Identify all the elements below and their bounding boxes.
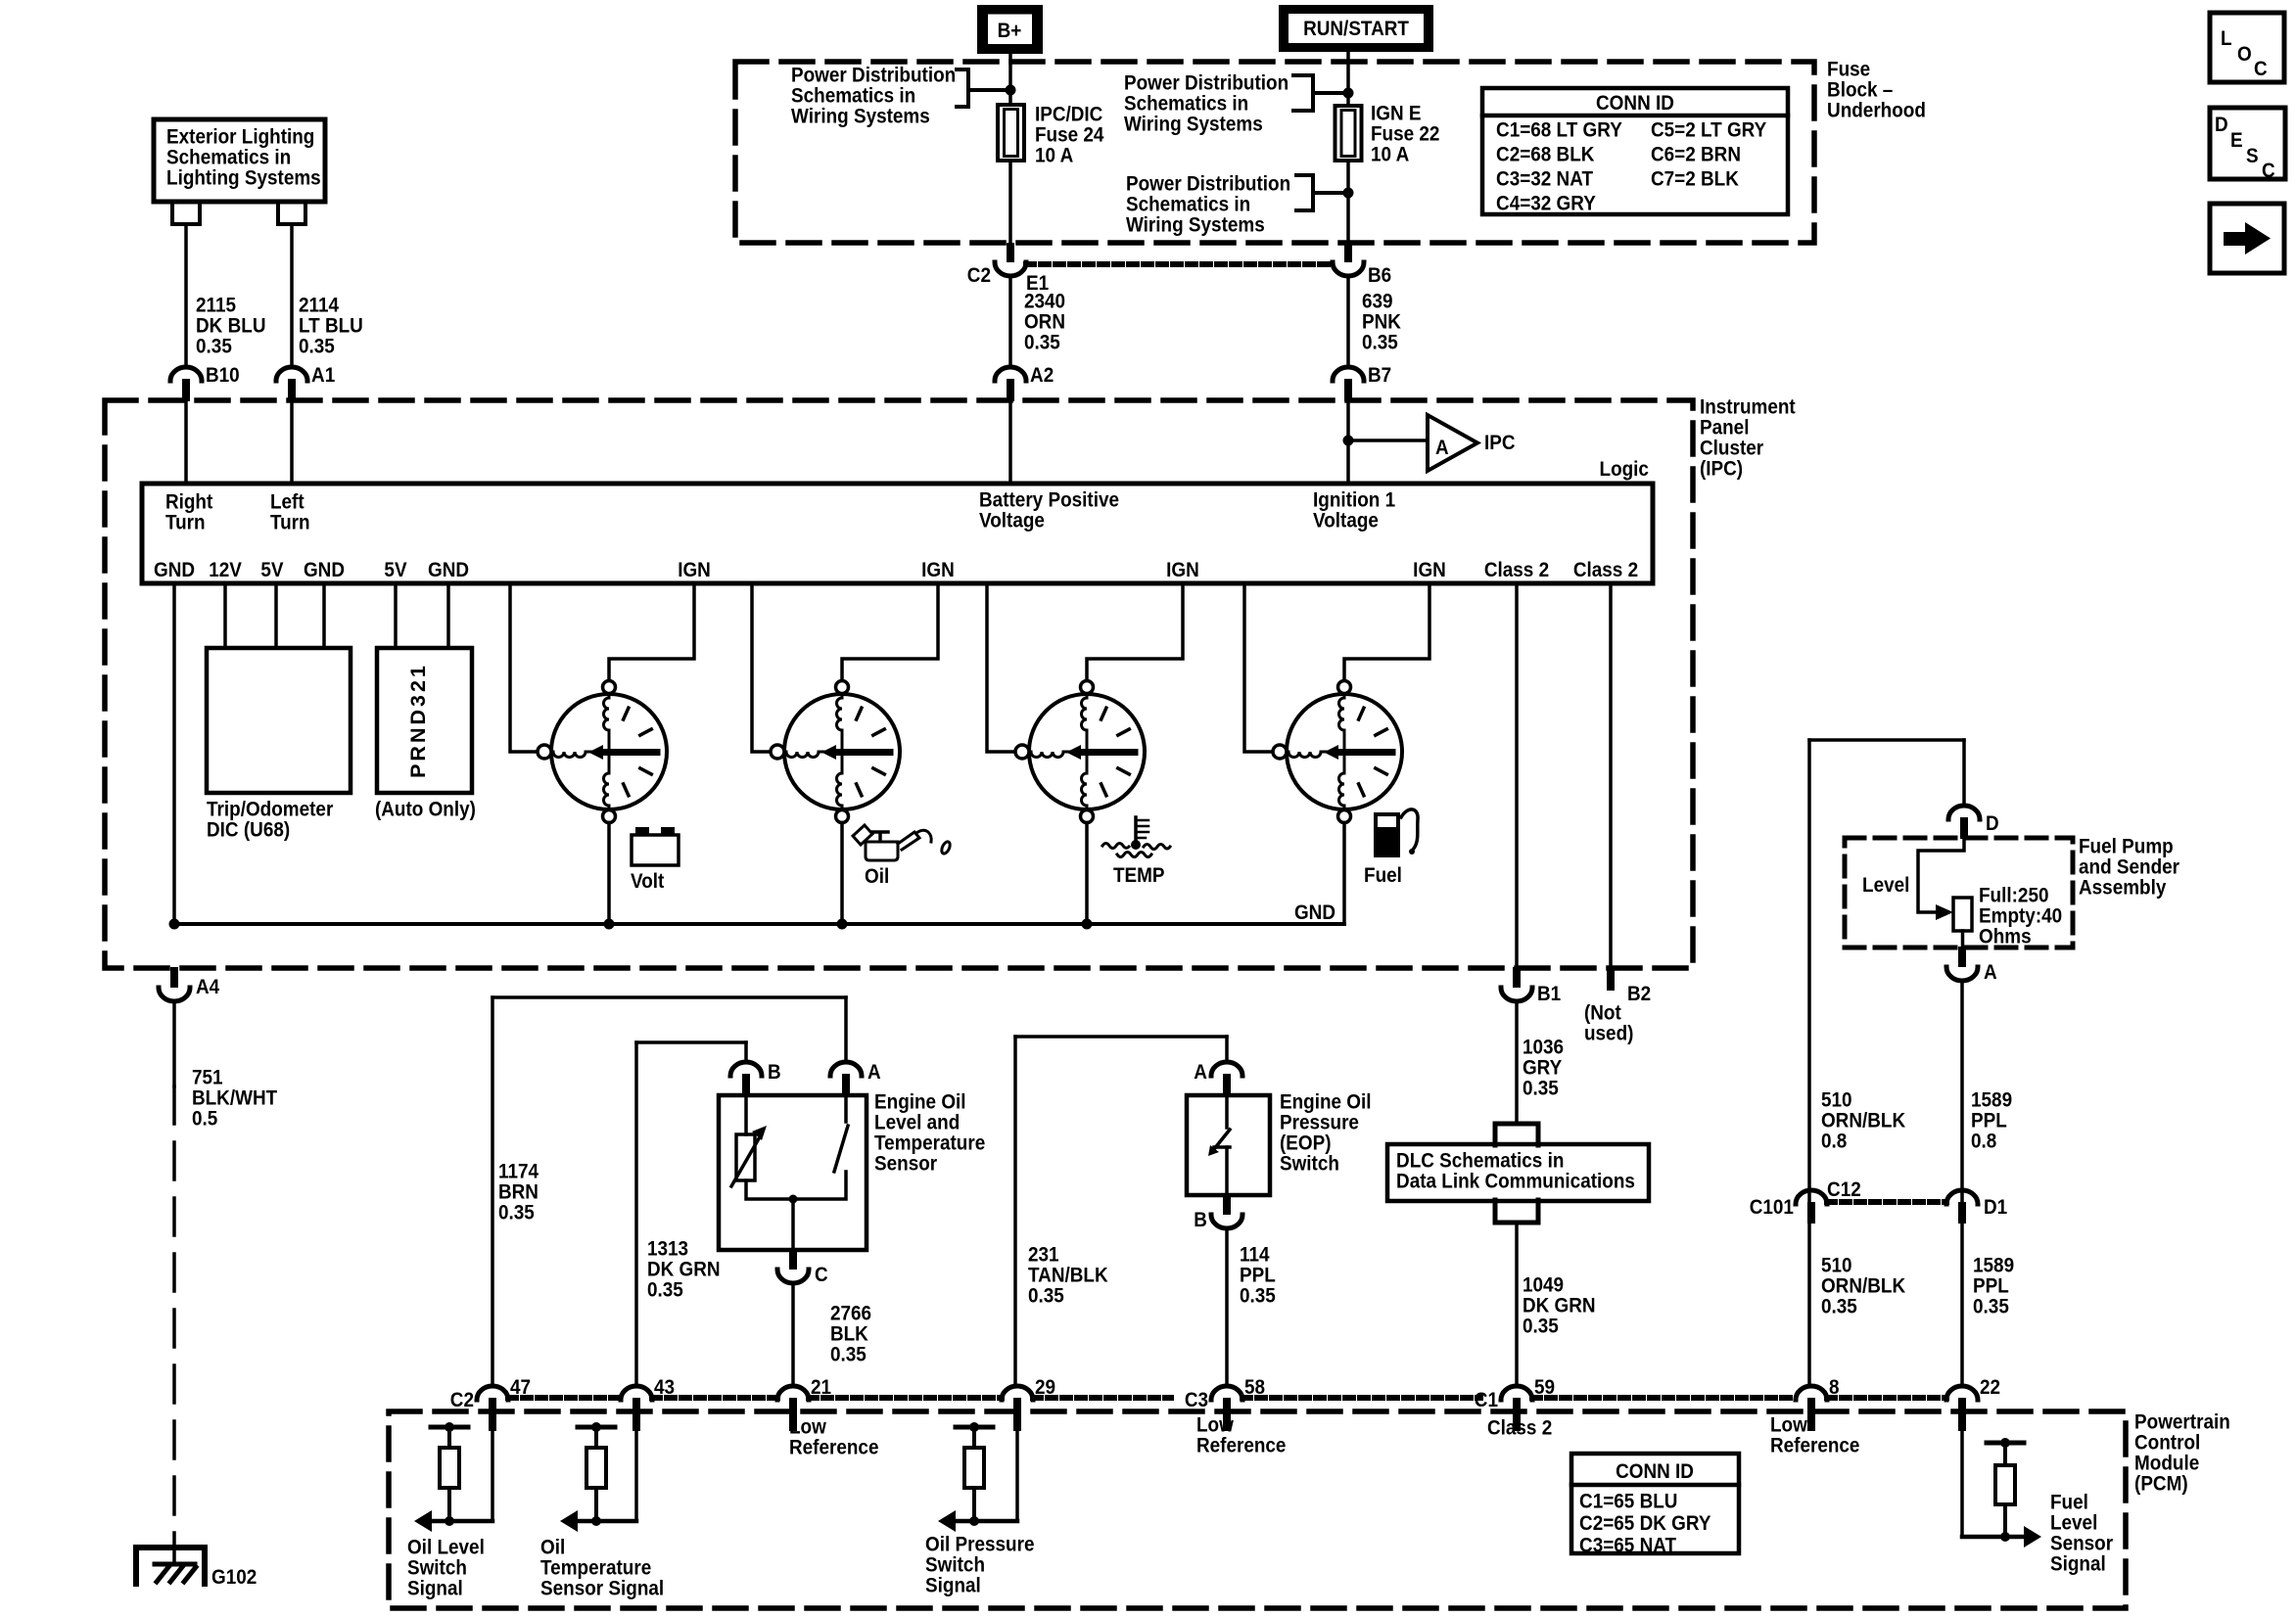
DLC connector bracket bottom [1495,1200,1538,1223]
pin fork right turn [172,203,200,224]
svg-text:GND: GND [154,559,195,581]
svg-text:0.5: 0.5 [192,1108,217,1131]
svg-text:A: A [1435,437,1449,459]
svg-text:Fuse: Fuse [1827,59,1870,81]
svg-text:Power Distribution: Power Distribution [791,65,956,87]
forward arrow reference box [2210,204,2284,273]
svg-text:12V: 12V [209,559,242,581]
svg-text:Schematics in: Schematics in [1124,93,1248,115]
wire from RUN/START into fuse block [1346,52,1350,106]
wire 639 PNK (fuse to IPC B7) [1346,276,1350,367]
svg-text:TEMP: TEMP [1113,864,1165,887]
wire Fuel gauge bottom to ground bus [1342,823,1346,925]
svg-text:A2: A2 [1030,364,1054,387]
svg-text:Level and: Level and [874,1112,960,1134]
svg-text:A4: A4 [196,976,220,998]
svg-text:IGN: IGN [678,559,711,581]
svg-text:114: 114 [1240,1244,1270,1267]
svg-text:231: 231 [1028,1244,1059,1267]
svg-text:Battery Positive: Battery Positive [979,489,1119,512]
svg-text:PRND321: PRND321 [406,663,430,778]
svg-text:Ohms: Ohms [1979,926,2032,948]
svg-text:C2: C2 [450,1389,474,1411]
svg-text:0.35: 0.35 [830,1344,867,1366]
svg-text:Switch: Switch [925,1554,985,1577]
svg-text:1049: 1049 [1523,1274,1564,1297]
svg-text:Trip/Odometer: Trip/Odometer [207,799,333,821]
wire from B+ into fuse block [1008,54,1012,105]
svg-text:Fuse 24: Fuse 24 [1035,124,1104,147]
connector pin 8 (PCM row) [1796,1386,1827,1400]
svg-text:IPC: IPC [1484,432,1516,454]
resistor R oil temperature [578,1425,615,1430]
svg-text:RUN/START: RUN/START [1303,18,1409,40]
wire 2340 ORN (fuse to IPC A2) [1008,276,1012,367]
svg-text:1589: 1589 [1973,1255,2014,1277]
svg-text:Sensor: Sensor [874,1153,937,1176]
svg-text:Pressure: Pressure [1280,1112,1359,1134]
svg-text:0.35: 0.35 [1523,1316,1559,1338]
junction dots on ground bus [169,919,180,930]
connector B10 [170,367,202,381]
svg-text:Cluster: Cluster [1700,438,1763,460]
wire 751 BLK/WHT to G102 [172,1001,176,1086]
wire 114 PPL [1225,1228,1229,1386]
connector A4 [170,967,178,988]
svg-text:1313: 1313 [647,1238,688,1261]
connector A (EOP) [1211,1062,1242,1076]
svg-text:Engine Oil: Engine Oil [1280,1091,1372,1114]
svg-text:0.35: 0.35 [1973,1296,2009,1318]
buffer triangle A [1428,415,1477,471]
connector A (fuel sender) [1958,947,1966,967]
RUN/START power feed box [1279,5,1433,52]
connector A1 [276,367,307,381]
engine oil level and temperature sensor box [719,1095,867,1250]
svg-text:Module: Module [2134,1453,2199,1475]
svg-text:22: 22 [1980,1376,2000,1399]
CONN ID table (fuse block) [1482,88,1788,215]
svg-text:C1=65 BLU: C1=65 BLU [1579,1491,1677,1513]
svg-text:GND: GND [1294,901,1335,924]
svg-text:0.8: 0.8 [1821,1131,1847,1153]
GND pin wire to ground bus [172,583,176,924]
svg-text:O: O [2237,43,2252,66]
svg-text:C: C [2262,160,2275,182]
svg-text:2115: 2115 [196,295,236,317]
svg-text:Left: Left [270,491,305,514]
temp thermometer icon [1102,817,1170,857]
svg-text:Class 2: Class 2 [1484,559,1549,581]
svg-text:B10: B10 [206,364,240,387]
CONN ID table (PCM) [1571,1454,1739,1557]
svg-text:Fuse 22: Fuse 22 [1371,123,1439,146]
svg-text:ORN/BLK: ORN/BLK [1821,1275,1906,1298]
wire IGN to Oil gauge top terminal [842,583,938,681]
svg-text:C3=32 NAT: C3=32 NAT [1496,168,1594,191]
svg-text:2766: 2766 [830,1303,871,1325]
IPC logic bar [142,484,1653,583]
svg-text:Right: Right [165,491,213,514]
svg-text:A: A [1984,961,1997,984]
svg-text:Class 2: Class 2 [1487,1417,1552,1440]
svg-text:Wiring Systems: Wiring Systems [1126,214,1265,237]
svg-text:PPL: PPL [1240,1265,1276,1287]
connector B (EOP) [1223,1194,1231,1215]
wire 1049 DK GRN [1515,1223,1519,1386]
svg-text:Level: Level [2050,1512,2097,1535]
PCM dashed box [389,1411,2126,1608]
wire IGN to Fuel gauge top terminal [1344,583,1429,681]
DESC reference box [2210,108,2285,182]
svg-text:639: 639 [1362,291,1393,313]
logic bar pin labels [154,559,1638,581]
wire from fuse 22 to B6 connector [1346,161,1350,243]
trip/odometer DIC box [207,648,351,793]
svg-text:used): used) [1584,1023,1633,1045]
resistor R oil pressure [956,1425,993,1430]
svg-text:GRY: GRY [1523,1057,1563,1080]
ground G102 [136,1548,205,1584]
svg-text:Schematics in: Schematics in [791,85,915,108]
svg-text:C1=68 LT GRY: C1=68 LT GRY [1496,119,1622,142]
dotted connector row C2-B6 [1026,261,1333,267]
svg-text:5V: 5V [384,559,407,581]
ground bus inside IPC [174,922,1344,926]
svg-text:Level: Level [1862,874,1909,897]
svg-text:C3: C3 [1185,1389,1208,1411]
svg-text:43: 43 [654,1376,675,1399]
svg-text:CONN ID: CONN ID [1616,1460,1694,1483]
svg-text:C2: C2 [967,264,991,287]
svg-text:0.35: 0.35 [647,1279,683,1302]
svg-text:(Auto Only): (Auto Only) [375,799,476,821]
svg-text:Voltage: Voltage [979,510,1045,532]
svg-text:PPL: PPL [1971,1110,2007,1132]
svg-text:751: 751 [192,1067,223,1089]
svg-text:Engine Oil: Engine Oil [874,1091,966,1114]
wire IGN to TEMP gauge top terminal [1087,583,1183,681]
svg-text:10 A: 10 A [1371,144,1410,166]
svg-text:(Not: (Not [1584,1002,1621,1025]
volt battery icon [632,827,679,865]
svg-text:C101: C101 [1750,1196,1794,1219]
junction dot to IPC buffer [1343,436,1354,446]
svg-text:1036: 1036 [1523,1037,1564,1059]
instrument panel cluster dashed box [105,400,1693,968]
svg-text:C3=65 NAT: C3=65 NAT [1579,1534,1677,1556]
wire B+ inside IPC [1008,401,1012,484]
svg-text:Control: Control [2134,1432,2200,1455]
svg-text:510: 510 [1821,1255,1852,1277]
wire to IPC buffer triangle [1348,439,1428,442]
svg-text:Signal: Signal [2050,1553,2106,1576]
svg-text:D: D [1986,812,1999,835]
connector B (EOLT) [730,1062,762,1076]
svg-text:Data Link Communications: Data Link Communications [1396,1171,1635,1193]
gauge TEMP (air core) [1015,681,1145,823]
svg-text:GND: GND [304,559,345,581]
wires 5V GND to PRND [394,583,398,648]
svg-text:1589: 1589 [1971,1089,2012,1112]
svg-text:8: 8 [1829,1376,1840,1399]
svg-text:BLK/WHT: BLK/WHT [192,1087,278,1110]
svg-text:2340: 2340 [1024,291,1065,313]
power distribution reference bracket 3 [1296,175,1348,210]
wire 2114 LT BLU [290,224,294,367]
svg-text:Reference: Reference [1770,1435,1860,1457]
svg-text:Assembly: Assembly [2079,877,2167,900]
gauge Fuel (air core) [1273,681,1402,823]
wire 1036 GRY [1515,1001,1519,1123]
exterior lighting reference box [154,119,325,202]
svg-text:TAN/BLK: TAN/BLK [1028,1265,1108,1287]
svg-text:and Sender: and Sender [2079,856,2179,879]
svg-text:0.35: 0.35 [1523,1078,1559,1100]
svg-text:C: C [815,1264,828,1286]
wire 2115 DK BLU [184,224,188,367]
svg-text:DLC Schematics in: DLC Schematics in [1396,1150,1564,1173]
junction dot on IGN E wire upper [1343,88,1354,99]
svg-text:Block –: Block – [1827,79,1893,102]
svg-text:C2=65 DK GRY: C2=65 DK GRY [1579,1512,1711,1535]
oil level switch [834,1095,848,1172]
power distribution reference bracket 2 [1293,75,1348,111]
connector C2/E1 [1007,243,1014,262]
svg-text:B7: B7 [1368,364,1391,387]
PRND321 display box [377,648,472,793]
svg-text:E: E [2230,129,2243,152]
dotted connector row C101 [1827,1199,1946,1205]
svg-text:Sensor Signal: Sensor Signal [540,1578,664,1600]
connector pin 22 (PCM row) [1946,1386,1978,1400]
svg-text:IPC/DIC: IPC/DIC [1035,104,1103,126]
svg-text:Oil: Oil [865,865,889,888]
svg-text:B: B [768,1061,781,1084]
svg-text:B2: B2 [1627,983,1651,1005]
connector A2 [995,367,1026,381]
svg-text:Oil Pressure: Oil Pressure [925,1534,1034,1556]
svg-text:ORN: ORN [1024,311,1065,334]
wire Ignition 1 inside IPC [1346,401,1350,484]
fuse IPC/DIC Fuse 24 10A [998,105,1024,161]
connector pin 43 (PCM row) [621,1386,652,1400]
connector stub B2 (not used) [1607,967,1615,991]
svg-text:0.35: 0.35 [1024,332,1060,354]
svg-text:Schematics in: Schematics in [166,147,291,169]
DLC connector bracket top [1495,1124,1538,1145]
fuse IGN E Fuse 22 10A [1335,106,1362,161]
svg-text:Wiring Systems: Wiring Systems [1124,114,1263,136]
svg-text:PNK: PNK [1362,311,1401,334]
svg-text:Class 2: Class 2 [1573,559,1638,581]
svg-text:Empty:40: Empty:40 [1979,905,2062,928]
wire loop to fuel pump sender [1809,738,1964,742]
svg-text:Fuel: Fuel [1364,864,1402,887]
svg-text:GND: GND [428,559,469,581]
wire feed to TEMP gauge left terminal [987,583,1015,752]
connector pin 59 (PCM row) [1501,1386,1532,1400]
svg-text:0.8: 0.8 [1971,1131,1996,1153]
svg-text:Switch: Switch [407,1557,467,1580]
connector D1 [1946,1190,1978,1204]
svg-text:Schematics in: Schematics in [1126,194,1250,216]
wire jumper to EOP switch pin A [1015,1035,1227,1039]
svg-text:Volt: Volt [631,870,665,893]
thermistor (variable resistor) [731,1095,767,1186]
svg-text:47: 47 [510,1376,531,1399]
svg-text:Power Distribution: Power Distribution [1126,173,1290,196]
svg-text:C2=68 BLK: C2=68 BLK [1496,144,1595,166]
connector B6 [1344,243,1352,262]
sensor internal junction [746,1172,846,1199]
svg-text:Panel: Panel [1700,417,1749,439]
connector pin 29 (PCM row) [1002,1386,1033,1400]
svg-text:Powertrain: Powertrain [2134,1411,2230,1434]
svg-text:D: D [2215,114,2228,136]
svg-text:Signal: Signal [407,1578,463,1600]
svg-text:CONN ID: CONN ID [1596,92,1674,115]
svg-text:DK GRN: DK GRN [1523,1295,1596,1317]
wire feed to Oil gauge left terminal [752,583,771,752]
svg-text:Temperature: Temperature [540,1557,651,1580]
svg-text:Reference: Reference [789,1437,879,1459]
svg-text:C4=32 GRY: C4=32 GRY [1496,193,1596,215]
resistor R oil level [431,1425,468,1430]
svg-text:A1: A1 [311,364,335,387]
svg-text:Full:250: Full:250 [1979,885,2049,907]
svg-text:Ignition 1: Ignition 1 [1313,489,1395,512]
svg-text:D1: D1 [1984,1196,2007,1219]
svg-text:Turn: Turn [165,512,206,534]
svg-text:C7=2 BLK: C7=2 BLK [1651,168,1739,191]
svg-text:59: 59 [1534,1376,1555,1399]
wire 22 into PCM [1960,1431,1964,1537]
svg-text:Underhood: Underhood [1827,100,1926,122]
svg-text:Reference: Reference [1196,1435,1286,1457]
svg-text:ORN/BLK: ORN/BLK [1821,1110,1906,1132]
wire jumper to EOLT sensor pin B [636,1040,746,1044]
wires 12V 5V GND to trip/odometer [223,583,227,648]
svg-text:Signal: Signal [925,1575,981,1597]
svg-text:B6: B6 [1368,264,1391,287]
svg-text:C5=2 LT GRY: C5=2 LT GRY [1651,119,1767,142]
svg-text:B+: B+ [998,20,1022,42]
svg-text:21: 21 [811,1376,831,1399]
wire IGN to Volt gauge top terminal [609,583,694,681]
svg-text:Oil: Oil [540,1537,565,1559]
wires 47/43/29 into PCM [491,1431,494,1521]
svg-text:Temperature: Temperature [874,1132,985,1155]
svg-text:B1: B1 [1537,983,1561,1005]
wire TEMP gauge bottom to ground bus [1085,823,1089,925]
svg-text:(IPC): (IPC) [1700,458,1743,481]
svg-text:B: B [1194,1209,1207,1231]
svg-text:1174: 1174 [498,1161,539,1183]
svg-text:Logic: Logic [1600,458,1649,481]
pin fork left turn [278,203,305,224]
wire jumper to EOLT sensor pin A [492,995,846,999]
svg-text:L: L [2221,27,2232,50]
gauge Volt (air core) [538,681,667,823]
svg-text:IGN: IGN [921,559,955,581]
junction dot on IGN E wire lower [1343,188,1354,199]
svg-text:0.35: 0.35 [1362,332,1398,354]
svg-text:29: 29 [1035,1376,1055,1399]
wire from fuse 24 to C2 connector [1008,161,1012,243]
svg-text:Voltage: Voltage [1313,510,1379,532]
connector pin 47 (PCM row) [477,1386,508,1400]
svg-text:LT BLU: LT BLU [299,315,363,338]
svg-text:DK GRN: DK GRN [647,1259,721,1281]
svg-text:A: A [1194,1061,1207,1084]
svg-text:C6=2 BRN: C6=2 BRN [1651,144,1741,166]
wires B10/A1 to logic bar [184,401,188,484]
fuel pump icon [1374,809,1418,857]
svg-text:S: S [2246,145,2259,167]
level sender wiper wire [1918,839,1964,912]
gauge Oil (air core) [771,681,900,823]
connector pin 58 (PCM row) [1211,1386,1242,1400]
svg-text:Fuel: Fuel [2050,1492,2088,1514]
connector B7 [1333,367,1364,381]
svg-text:Sensor: Sensor [2050,1533,2113,1555]
svg-text:A: A [867,1061,881,1084]
svg-text:Switch: Switch [1280,1153,1339,1176]
DLC schematics box [1387,1144,1649,1201]
connector pin 21 (PCM row) [777,1386,809,1400]
svg-text:(EOP): (EOP) [1280,1132,1332,1155]
svg-text:C1: C1 [1475,1389,1498,1411]
svg-text:5V: 5V [260,559,284,581]
resistor R fuel level [1987,1441,2024,1446]
class 2 wires inside IPC [1515,583,1519,967]
svg-text:0.35: 0.35 [1240,1285,1276,1308]
LOC reference box [2210,13,2284,82]
connector B1 [1513,967,1521,988]
svg-text:Turn: Turn [270,512,310,534]
svg-text:BLK: BLK [830,1323,868,1346]
svg-text:10 A: 10 A [1035,145,1074,167]
svg-text:0.35: 0.35 [498,1202,535,1224]
svg-text:Exterior Lighting: Exterior Lighting [166,126,314,149]
B+ power feed box [977,5,1043,54]
svg-text:58: 58 [1244,1376,1265,1399]
svg-text:C12: C12 [1827,1178,1861,1201]
svg-text:BRN: BRN [498,1181,539,1204]
svg-text:(PCM): (PCM) [2134,1473,2188,1496]
connector A (EOLT) [830,1062,862,1076]
svg-text:Instrument: Instrument [1700,396,1796,419]
svg-text:Low: Low [789,1416,826,1439]
svg-text:Low: Low [1770,1414,1807,1437]
fuel pump and sender assembly dashed box [1845,838,2073,947]
svg-text:Oil Level: Oil Level [407,1537,485,1559]
wire Oil gauge bottom to ground bus [840,823,844,925]
connector C (EOLT) [789,1249,797,1270]
svg-text:C: C [2254,58,2268,80]
svg-text:Low: Low [1196,1414,1234,1437]
sender potentiometer [1953,898,1972,931]
svg-text:510: 510 [1821,1089,1852,1112]
svg-text:0.35: 0.35 [1821,1296,1857,1318]
svg-text:Lighting Systems: Lighting Systems [166,167,321,190]
svg-text:IGN E: IGN E [1371,103,1422,125]
svg-text:0.35: 0.35 [1028,1285,1064,1308]
svg-text:Power Distribution: Power Distribution [1124,72,1289,95]
svg-text:IGN: IGN [1166,559,1199,581]
oil can icon [853,825,952,860]
